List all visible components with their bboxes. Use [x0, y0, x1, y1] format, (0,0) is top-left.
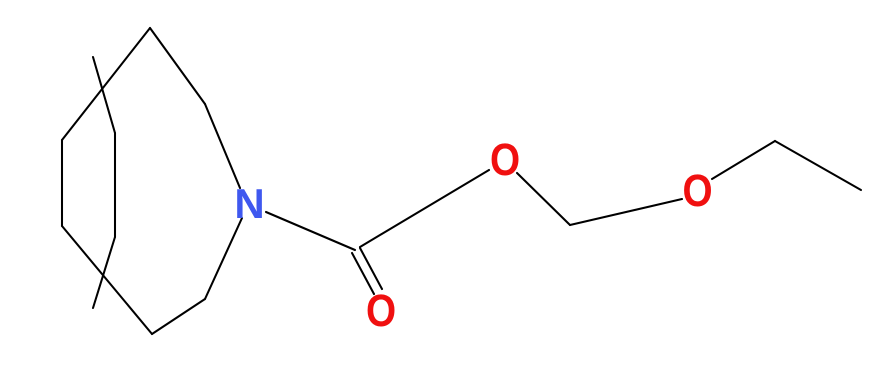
- svg-text:N: N: [234, 180, 264, 227]
- svg-text:O: O: [366, 285, 396, 335]
- svg-text:O: O: [682, 165, 712, 215]
- svg-text:O: O: [490, 134, 520, 184]
